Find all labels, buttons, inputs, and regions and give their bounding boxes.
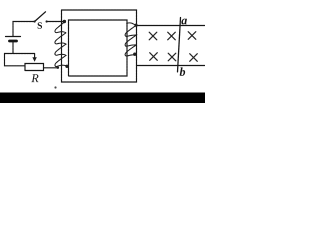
field x row1 col1 — [149, 32, 157, 40]
primary coil P1 (4 turns) — [55, 22, 67, 67]
field x row2 col2 — [168, 53, 176, 61]
svg-text:R: R — [30, 71, 39, 85]
wire R right terminal to coil bottom — [44, 67, 59, 69]
field x row2 col3 — [190, 54, 198, 62]
junction dot secondary coil top — [134, 24, 137, 27]
bottom rail — [137, 65, 206, 67]
top rail — [137, 25, 206, 27]
svg-text:b: b — [179, 65, 185, 79]
bottom black bar — [0, 93, 205, 104]
junction dot secondary coil bottom — [133, 53, 136, 56]
wire battery top to switch — [13, 22, 34, 37]
wire battery bottom — [12, 43, 14, 54]
secondary coil S1 (3 turns) — [125, 23, 136, 56]
svg-text:S: S — [37, 22, 42, 32]
transformer core inner rectangle — [69, 20, 128, 76]
field x row2 col1 — [150, 53, 158, 61]
junction dot switch contact — [46, 20, 48, 22]
wire to rheostat slider — [5, 53, 35, 55]
wire switch to primary coil — [47, 21, 65, 23]
battery long plate — [6, 36, 21, 38]
battery short thick plate — [10, 40, 17, 43]
svg-text:a: a — [181, 13, 187, 27]
wire left branch down to R left terminal — [5, 54, 26, 66]
junction dot primary coil top — [63, 20, 66, 23]
switch S blade — [35, 12, 46, 22]
junction dot R wire / coil — [57, 66, 60, 69]
rod ab — [178, 18, 181, 73]
junction dot primary coil bottom — [65, 65, 68, 68]
field x row1 col3 — [188, 32, 196, 40]
scan speck — [54, 86, 56, 88]
transformer core outer rectangle — [62, 10, 137, 82]
field x row1 col2 — [168, 32, 176, 40]
rheostat slider arrow — [34, 54, 36, 58]
junction dot switch pivot — [34, 20, 36, 22]
rheostat arrowhead — [32, 57, 36, 62]
rheostat R box — [25, 64, 44, 71]
